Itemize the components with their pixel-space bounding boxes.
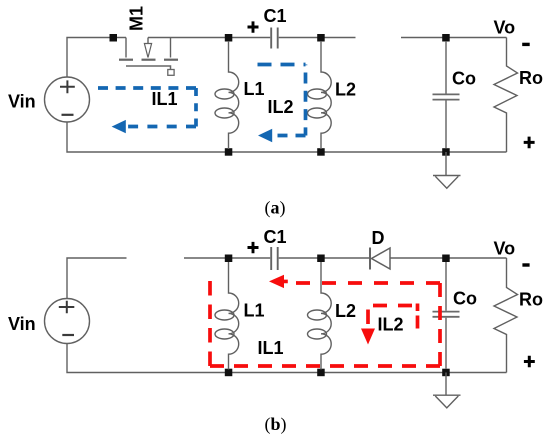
resistor Ro (a): [494, 38, 518, 153]
ground (a): [433, 152, 461, 188]
inductor L2 (b): [308, 262, 332, 370]
source Vin (a): [45, 77, 90, 122]
capacitor Co (a): [433, 41, 460, 148]
ground (b): [433, 373, 461, 408]
label plus of Ro (b): [524, 356, 535, 368]
svg-text:Co: Co: [453, 289, 477, 309]
svg-text:Co: Co: [452, 69, 476, 89]
label plus of Ro (a): [524, 137, 535, 149]
arrowhead of red IL1 loop (through C1): [269, 275, 288, 288]
source Vin (b): [45, 299, 90, 344]
node: top of L2 (a): [317, 34, 325, 42]
node: M1 drain node (a): [110, 34, 118, 42]
wire: Vin top to M1 drain node: [67, 38, 126, 78]
current loop IL2 (red dashed, inner): [368, 304, 418, 329]
arrowhead of red IL2 loop: [361, 329, 375, 345]
svg-text:Ro: Ro: [519, 68, 543, 88]
wire: Vin top to open switch (b): [67, 258, 127, 299]
node: bottom of L1 (a): [225, 148, 233, 156]
svg-text:IL2: IL2: [378, 315, 404, 335]
arrowhead of IL2: [258, 129, 272, 142]
svg-text:L2: L2: [335, 80, 356, 100]
label + of C1 (b): [248, 242, 259, 253]
current loop IL1 (red dashed, outer): [210, 281, 440, 366]
node: bottom of L1 (b): [225, 369, 233, 377]
svg-text:L1: L1: [244, 79, 265, 99]
svg-text:(a): (a): [265, 198, 286, 219]
current loop IL2 (blue dashed): [258, 65, 306, 136]
transistor M1: [119, 38, 178, 76]
svg-text:Vin: Vin: [8, 92, 36, 112]
wire: bottom rail a: [67, 122, 507, 152]
inductor L1 (b): [215, 262, 239, 370]
svg-text:IL2: IL2: [268, 97, 294, 117]
inductor L2 (a): [308, 41, 332, 149]
wire: M1 source to Ro corner (top rail a): [148, 37, 507, 39]
node: bottom of L2 (a): [317, 148, 325, 156]
node: top of L1 (b): [225, 255, 233, 263]
arrowhead of IL1: [112, 120, 126, 133]
wire: bottom rail b: [67, 343, 507, 372]
svg-text:L1: L1: [244, 301, 265, 321]
inductor L1 (a): [215, 41, 239, 149]
capacitor C1 (b): [271, 247, 278, 270]
label + of C1 (a): [248, 21, 259, 32]
svg-text:Vin: Vin: [8, 314, 36, 334]
wire: diode to Ro corner (b): [390, 257, 507, 259]
capacitor C1 (a): [271, 28, 278, 49]
node: top of Co (a): [442, 34, 450, 42]
svg-text:C1: C1: [264, 6, 287, 26]
label minus of Vo (a): [522, 43, 530, 46]
svg-text:(b): (b): [265, 414, 287, 435]
capacitor Co (b): [433, 262, 460, 369]
svg-text:Ro: Ro: [519, 290, 543, 310]
svg-text:D: D: [372, 228, 385, 248]
node: top of L2 (b): [317, 255, 325, 263]
node: bottom of Co (a): [442, 148, 450, 156]
svg-text:C1: C1: [264, 227, 287, 247]
wire: top rail right part (b): [184, 257, 370, 259]
diode D: [370, 248, 390, 270]
svg-text:IL1: IL1: [152, 89, 178, 109]
node: top of Co (b): [442, 255, 450, 263]
node: top of L1 (a): [225, 34, 233, 42]
label minus of Vo (b): [522, 263, 529, 266]
current loop IL1 (blue dashed): [98, 88, 196, 127]
node: bottom of L2 (b): [317, 369, 325, 377]
svg-text:L2: L2: [335, 301, 356, 321]
resistor Ro (b): [494, 258, 518, 373]
svg-text:Vo: Vo: [494, 18, 516, 38]
node: bottom of Co (b): [442, 369, 450, 377]
svg-text:M1: M1: [127, 6, 147, 31]
svg-text:IL1: IL1: [258, 338, 284, 358]
svg-text:Vo: Vo: [494, 239, 516, 259]
